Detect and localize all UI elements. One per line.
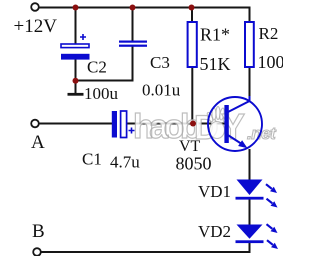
svg-text:C1: C1 xyxy=(82,150,102,169)
svg-text:C3: C3 xyxy=(150,53,170,72)
svg-text:100: 100 xyxy=(258,52,284,72)
svg-text:A: A xyxy=(31,132,45,153)
svg-text:haob: haob xyxy=(133,108,200,146)
svg-text:4.7u: 4.7u xyxy=(110,153,140,172)
svg-text:8050: 8050 xyxy=(176,154,212,174)
svg-text:100u: 100u xyxy=(84,84,119,103)
svg-text:0.01u: 0.01u xyxy=(142,81,181,100)
svg-text:R2: R2 xyxy=(259,24,279,43)
svg-text:C2: C2 xyxy=(87,58,107,77)
svg-text:R1*: R1* xyxy=(200,25,230,45)
svg-text:+12V: +12V xyxy=(14,16,58,37)
svg-text:B: B xyxy=(32,221,45,242)
svg-text:VD1: VD1 xyxy=(198,182,231,201)
svg-text:51K: 51K xyxy=(200,54,231,74)
svg-text:VD2: VD2 xyxy=(198,222,231,241)
